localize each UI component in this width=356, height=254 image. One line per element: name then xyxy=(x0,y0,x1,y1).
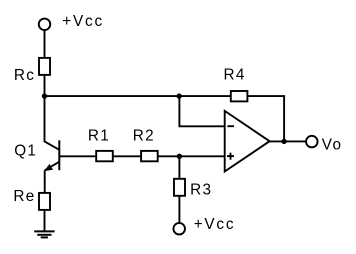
ground xyxy=(34,231,54,237)
svg-text:+Vcc: +Vcc xyxy=(62,13,104,30)
terminal +Vcc bottom xyxy=(173,223,185,235)
wire output xyxy=(270,140,307,142)
op-amp U1 xyxy=(225,111,270,172)
svg-text:+Vcc: +Vcc xyxy=(194,216,236,233)
svg-text:R1: R1 xyxy=(88,127,110,144)
node output xyxy=(281,139,286,144)
resistor Rc xyxy=(39,58,50,75)
resistor R2 xyxy=(141,151,158,161)
svg-text:R4: R4 xyxy=(224,67,246,84)
wire xyxy=(113,155,141,157)
wire xyxy=(44,30,46,58)
wire top xyxy=(45,95,232,97)
svg-text:Q1: Q1 xyxy=(14,142,37,159)
wire emitter xyxy=(44,170,46,193)
svg-text:R2: R2 xyxy=(133,127,155,144)
wire feedback xyxy=(179,96,224,126)
resistor Re xyxy=(39,193,50,210)
terminal +Vcc top xyxy=(39,19,51,31)
resistor R1 xyxy=(96,151,113,161)
wire xyxy=(44,75,46,96)
wire collector xyxy=(45,96,60,150)
wire xyxy=(178,156,180,179)
wire xyxy=(44,210,46,232)
svg-text:R3: R3 xyxy=(190,182,212,199)
wire xyxy=(247,96,284,141)
svg-text:Re: Re xyxy=(13,188,35,205)
node B xyxy=(177,154,182,159)
wire plus input xyxy=(158,155,225,157)
resistor R3 xyxy=(174,179,185,196)
svg-text:Vo: Vo xyxy=(322,136,342,153)
svg-text:Rc: Rc xyxy=(14,67,35,84)
terminal Vo xyxy=(306,136,318,148)
transistor Q1 xyxy=(44,140,59,171)
resistor R4 xyxy=(231,91,248,101)
wire base xyxy=(59,155,96,157)
wire xyxy=(178,196,180,222)
node A xyxy=(177,93,182,98)
node collector xyxy=(42,93,47,98)
